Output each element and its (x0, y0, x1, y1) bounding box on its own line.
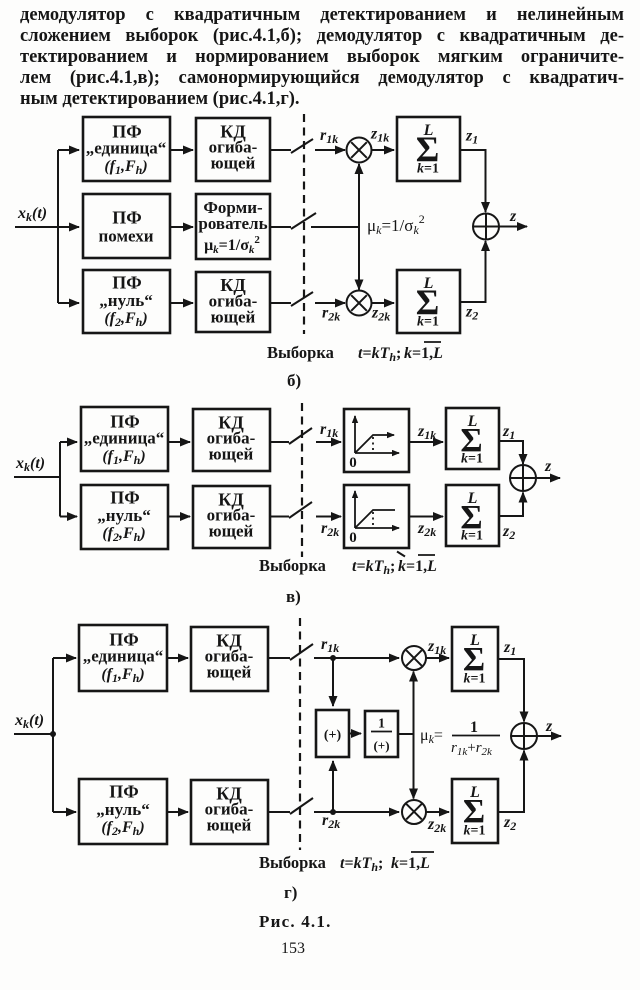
svg-text:(f2,Fh): (f2,Fh) (101, 819, 144, 838)
svg-text:Рис. 4.1.: Рис. 4.1. (259, 912, 332, 931)
svg-text:z1: z1 (465, 128, 478, 147)
svg-text:r1k: r1k (320, 421, 338, 440)
switch lever 1 b (291, 139, 313, 153)
svg-text:153: 153 (281, 940, 305, 957)
wire branch vertical g (52, 658, 54, 812)
wire inv to mu line g (398, 733, 413, 735)
switch lever 2 g (290, 798, 313, 814)
wire mult2 to sum2 g (426, 811, 449, 813)
svg-text:r2k: r2k (322, 812, 340, 831)
switch lever 2 v (289, 502, 312, 518)
svg-text:Выборка: Выборка (267, 343, 334, 362)
svg-text:1: 1 (378, 717, 385, 732)
svg-text:0: 0 (349, 455, 357, 471)
svg-text:k=1,L: k=1,L (398, 558, 437, 575)
wire PF-unit to KD1 b (170, 149, 193, 151)
svg-text:xk(t): xk(t) (14, 712, 44, 731)
summator sum1 v (446, 408, 499, 469)
svg-text:z2k: z2k (427, 816, 446, 835)
box KD envelope 2 v (193, 486, 270, 548)
svg-text:k=1: k=1 (417, 315, 439, 330)
adder b (473, 214, 499, 240)
box KD envelope 2 g (191, 780, 268, 844)
limiter box 2 v (344, 485, 409, 548)
wire KD2 to switch g (268, 811, 290, 813)
wire KD2 to switch b (270, 302, 291, 304)
wire sum2 to adder v (499, 493, 523, 517)
svg-text:k=1: k=1 (464, 672, 486, 687)
wire branch to PF-unit g (53, 657, 76, 659)
svg-text:z2: z2 (503, 814, 516, 833)
svg-text:r1k: r1k (320, 127, 338, 146)
svg-text:ющей: ющей (207, 663, 252, 682)
svg-text:r2k: r2k (321, 520, 339, 539)
wire mult1 to sum1 b (371, 149, 394, 151)
wire sum1 to adder g (498, 659, 524, 722)
summator sum2 v (446, 485, 499, 546)
wire mult1 to sum1 g (426, 657, 449, 659)
wire mu down arrow g (413, 734, 415, 799)
svg-text:(f1,Fh): (f1,Fh) (104, 158, 147, 177)
svg-text:t=kTh;: t=kTh; (340, 855, 383, 874)
svg-text:t=kTh;: t=kTh; (352, 558, 395, 577)
svg-text:рователь: рователь (198, 214, 267, 233)
svg-text:ПФ: ПФ (112, 273, 141, 293)
svg-text:z2: z2 (502, 523, 515, 542)
svg-text:k=1: k=1 (464, 824, 486, 839)
wire tap2 up to plus g (332, 761, 334, 812)
box PF "zero" b (83, 270, 170, 333)
wire mu up arrow b (358, 164, 360, 227)
svg-text:в): в) (286, 587, 301, 606)
wire KD1 to switch b (270, 149, 291, 151)
svg-text:k=1: k=1 (417, 162, 439, 177)
box inverse g (365, 711, 398, 757)
svg-text:z1k: z1k (370, 126, 389, 145)
svg-text:ПФ: ПФ (110, 488, 139, 508)
wire mu up arrow g (413, 672, 415, 735)
wire KD1 to switch v (270, 441, 289, 443)
svg-text:Выборка: Выборка (259, 853, 326, 872)
wire switch to limiter 1 v (316, 441, 341, 443)
wire branch to PF-zero b (58, 302, 79, 304)
wire branch vertical v (59, 442, 61, 517)
caption sampling b (267, 342, 443, 364)
svg-text:ющей: ющей (209, 445, 254, 464)
svg-text:1: 1 (470, 719, 478, 736)
svg-text:(f2,Fh): (f2,Fh) (104, 310, 147, 329)
svg-text:z2: z2 (465, 304, 478, 323)
box PF "zero" g (79, 779, 167, 844)
multiplier mult3 b (347, 291, 372, 316)
box PF "unit" g (79, 625, 167, 691)
wire PF-zero to KD2 v (168, 516, 190, 518)
svg-text:z2k: z2k (417, 520, 436, 539)
wire limiter to sum1 v (409, 441, 443, 443)
svg-text:r1k+r2k: r1k+r2k (451, 740, 493, 758)
wire input b (15, 226, 79, 228)
wire KD2 to switch v (270, 516, 289, 518)
multiplier mult2 g (402, 800, 426, 824)
wire sum1 to adder v (499, 441, 523, 464)
svg-text:„нуль“: „нуль“ (99, 291, 152, 310)
svg-text:б): б) (287, 371, 301, 390)
svg-text:„нуль“: „нуль“ (96, 800, 149, 819)
svg-text:(+): (+) (373, 738, 389, 753)
svg-text:ющей: ющей (211, 308, 256, 327)
wire sum2 to adder b (460, 241, 486, 302)
dashed sampling line v (301, 403, 303, 557)
wire branch to PF-zero g (53, 811, 76, 813)
svg-text:„единица“: „единица“ (86, 139, 167, 158)
svg-text:z2k: z2k (371, 305, 390, 324)
limiter box 1 v (344, 409, 409, 472)
multiplier mult1 g (402, 646, 426, 670)
wire input v (14, 476, 60, 478)
svg-text:(+): (+) (324, 728, 342, 743)
wire branch vertical b (57, 150, 59, 303)
wire branch to PF-unit b (58, 149, 79, 151)
box PF "zero" v (81, 485, 168, 549)
summator sum2 g (452, 779, 498, 843)
box PF "unit" b (83, 117, 170, 181)
svg-text:k=1: k=1 (461, 452, 483, 467)
svg-text:Выборка: Выборка (259, 556, 326, 575)
wire PF-unit to KD1 v (168, 441, 190, 443)
wire branch to PF-zero v (60, 516, 77, 518)
svg-text:xk(t): xk(t) (15, 455, 45, 474)
paragraph of body text (20, 5, 624, 110)
summator sum2 b (397, 270, 460, 333)
box KD envelope 2 b (196, 272, 270, 332)
summator sum1 b (397, 117, 460, 181)
box PF "unit" v (81, 407, 168, 471)
wire limiter to sum2 v (409, 516, 443, 518)
svg-text:z: z (509, 208, 517, 225)
svg-text:k=1: k=1 (461, 529, 483, 544)
svg-text:t=kTh;: t=kTh; (358, 345, 401, 364)
svg-text:„единица“: „единица“ (84, 429, 165, 448)
wire switch to limiter 2 v (316, 516, 341, 518)
wire sum1 to adder b (460, 150, 486, 212)
switch lever 3 b (291, 292, 313, 306)
caption sampling g (259, 852, 434, 874)
summator sum1 g (452, 627, 498, 691)
svg-text:μk=: μk= (420, 727, 443, 746)
svg-text:k=1,L: k=1,L (391, 855, 430, 872)
wire switch to mult2 g (314, 811, 399, 813)
node mu fraction label g (420, 719, 500, 758)
adder v (510, 465, 536, 491)
svg-text:r1k: r1k (321, 636, 339, 655)
svg-text:(f1,Fh): (f1,Fh) (102, 448, 145, 467)
junction dot tap2 g (330, 809, 336, 815)
wire PF-int to former b (170, 226, 193, 228)
svg-text:μk=1/σk2: μk=1/σk2 (204, 234, 260, 256)
wire switch to mult3 b (315, 302, 345, 304)
wire mu down arrow b (358, 227, 360, 290)
box KD envelope 1 b (196, 118, 270, 181)
wire PF-zero to KD2 b (170, 302, 193, 304)
caption sampling v (259, 552, 437, 578)
wire former to switch b (270, 226, 291, 228)
svg-text:z1k: z1k (427, 638, 446, 657)
svg-text:помехи: помехи (98, 227, 153, 246)
switch lever 1 g (290, 644, 313, 660)
wire KD1 to switch g (268, 657, 290, 659)
wire branch to PF-unit v (60, 441, 77, 443)
junction dot tap1 g (330, 655, 336, 661)
wire input g (14, 733, 53, 735)
svg-text:r2k: r2k (322, 305, 340, 324)
svg-text:„единица“: „единица“ (83, 647, 164, 666)
wire tap1 down to plus g (332, 658, 334, 706)
wire adder out v (536, 477, 560, 479)
wire plus to inv g (349, 733, 361, 735)
svg-text:ПФ: ПФ (109, 782, 138, 802)
svg-text:„нуль“: „нуль“ (97, 506, 150, 525)
junction dot input g (50, 731, 56, 737)
wire PF-zero to KD2 g (167, 811, 188, 813)
box KD envelope 1 g (191, 627, 268, 691)
box former mu b (196, 194, 270, 259)
multiplier mult1 b (347, 138, 372, 163)
svg-text:xk(t): xk(t) (17, 205, 47, 224)
svg-text:(f1,Fh): (f1,Fh) (101, 666, 144, 685)
svg-text:0: 0 (349, 530, 357, 546)
svg-text:z1: z1 (502, 423, 515, 442)
svg-text:ющей: ющей (211, 154, 256, 173)
dashed sampling line b (303, 114, 305, 334)
box plus g (316, 710, 349, 757)
wire adder out b (499, 226, 527, 228)
svg-text:ющей: ющей (207, 816, 252, 835)
svg-text:μk=1/σk2: μk=1/σk2 (367, 212, 425, 237)
box PF interference b (83, 194, 170, 258)
switch lever 2 b (291, 213, 316, 229)
adder g (511, 723, 537, 749)
wire adder out g (537, 735, 561, 737)
svg-text:г): г) (284, 883, 297, 902)
svg-text:z: z (544, 458, 552, 475)
svg-text:ПФ: ПФ (112, 208, 141, 228)
svg-text:k=1,L: k=1,L (404, 345, 443, 362)
svg-text:ющей: ющей (209, 522, 254, 541)
wire mult3 to sum2 b (371, 302, 394, 304)
svg-text:(f2,Fh): (f2,Fh) (102, 525, 145, 544)
svg-text:z1k: z1k (417, 423, 436, 442)
svg-text:z: z (545, 718, 553, 735)
wire switch to mult1 g (314, 657, 399, 659)
wire sum2 to adder g (498, 751, 524, 813)
svg-text:z1: z1 (503, 639, 516, 658)
wire switch to mult1 b (315, 149, 345, 151)
wire PF-unit to KD1 g (167, 657, 188, 659)
switch lever 1 v (289, 428, 312, 444)
dashed sampling line g (299, 618, 301, 850)
wire switch2 to mu line b (311, 226, 359, 228)
box KD envelope 1 v (193, 409, 270, 471)
